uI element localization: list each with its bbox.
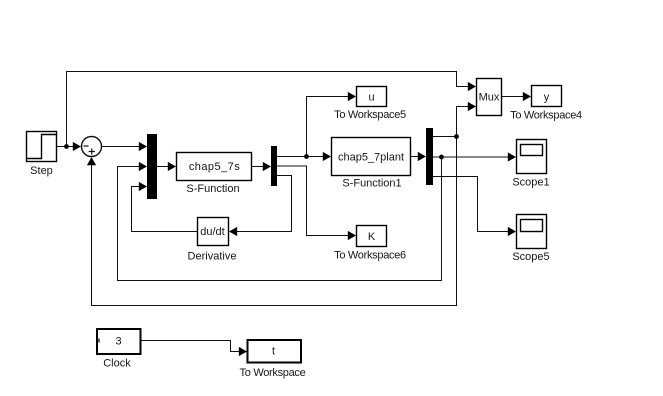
input mux bar [147, 134, 157, 199]
svg-text:Scope1: Scope1 [512, 177, 549, 189]
arrow into S-Function [168, 162, 176, 171]
arrow into Sum [73, 142, 81, 151]
block Scope5 [517, 215, 547, 249]
arrow into Scope1 [508, 152, 516, 161]
arrow into S-Function1 [323, 152, 331, 161]
arrow into Scope5 [508, 227, 516, 236]
junction dot step output [64, 144, 69, 149]
block Derivative du/dt [198, 218, 229, 246]
wire demux bar to To Workspace6 [277, 166, 349, 236]
wire output bar port 3 to Scope5 [433, 177, 509, 232]
svg-text:To Workspace6: To Workspace6 [334, 250, 406, 262]
svg-text:3: 3 [115, 336, 121, 348]
wire top feedback to Mux input 1 [67, 72, 470, 147]
svg-text:Derivative: Derivative [188, 251, 237, 263]
wire Sum to input mux bar [102, 146, 141, 148]
svg-text:To Workspace: To Workspace [240, 367, 306, 379]
wire input mux bar to S-Function [157, 166, 169, 168]
wire Clock to To Workspace [141, 341, 240, 352]
svg-text:chap5_7s: chap5_7s [189, 161, 240, 173]
wire S-Function1 to output demux bar [411, 156, 419, 158]
block Scope1 [517, 140, 547, 174]
block Mux [477, 79, 502, 116]
svg-text:chap5_7plant: chap5_7plant [338, 152, 404, 164]
arrow into Sum from below [87, 157, 96, 165]
svg-text:y: y [544, 92, 550, 104]
svg-text:To Workspace5: To Workspace5 [334, 109, 406, 121]
block t To Workspace [248, 340, 302, 363]
svg-text:u: u [368, 92, 374, 104]
arrow into input mux bar port 1 [139, 142, 147, 151]
svg-text:Step: Step [30, 165, 53, 177]
wire Derivative output to input mux bar port 3 [132, 187, 198, 232]
wire inner feedback loop to input mux bar port 2 [118, 157, 442, 281]
sum junction [82, 137, 102, 157]
arrow into Mux input 1 [468, 82, 476, 91]
demux bar after S-Function [271, 146, 277, 186]
wire outer feedback loop to Sum plus input [92, 137, 457, 306]
arrow into input mux bar port 2 [139, 162, 147, 171]
wire Step to Sum [57, 146, 79, 148]
arrow into demux bar [263, 162, 271, 171]
wire demux bar to S-Function1 [277, 156, 325, 158]
arrow into To Workspace5 [348, 92, 356, 101]
junction dot u branch [304, 154, 309, 159]
arrow into To Workspace4 [523, 92, 531, 101]
svg-text:Clock: Clock [103, 357, 131, 369]
wire output bar port 2 to Scope1 [433, 156, 509, 158]
block S-Function1 chap5_7plant [332, 138, 411, 176]
block K To Workspace6 [357, 226, 387, 247]
arrow into To Workspace t [239, 347, 247, 356]
wire output bar port 1 to node [433, 136, 457, 138]
svg-text:t: t [272, 346, 275, 358]
junction dot outer node [454, 134, 459, 139]
svg-text:S-Function1: S-Function1 [342, 178, 401, 190]
junction dot inner node [439, 155, 444, 160]
block S-Function chap5_7s [177, 153, 252, 181]
arrow into output demux bar [418, 152, 426, 161]
block Clock [97, 329, 141, 354]
svg-text:du/dt: du/dt [200, 226, 224, 238]
wire S-Function to demux bar [252, 166, 264, 168]
svg-text:Mux: Mux [479, 92, 500, 104]
block y To Workspace4 [532, 86, 562, 107]
arrow into To Workspace6 [348, 231, 356, 240]
wire demux bar to Derivative [236, 176, 292, 232]
block Step [27, 132, 57, 162]
wire Mux to To Workspace4 [502, 96, 524, 98]
svg-text:S-Function: S-Function [186, 183, 239, 195]
output demux bar after S-Function1 [426, 128, 433, 185]
arrow into input mux bar port 3 [139, 182, 147, 191]
svg-text:To Workspace4: To Workspace4 [510, 110, 582, 122]
wire u branch to To Workspace5 [307, 97, 350, 157]
arrow into Derivative [229, 227, 237, 236]
block u To Workspace5 [357, 87, 387, 107]
wire node to Mux input 2 [457, 107, 470, 137]
svg-text:K: K [368, 231, 376, 243]
arrow into Mux input 2 [468, 102, 476, 111]
svg-text:Scope5: Scope5 [512, 251, 549, 263]
